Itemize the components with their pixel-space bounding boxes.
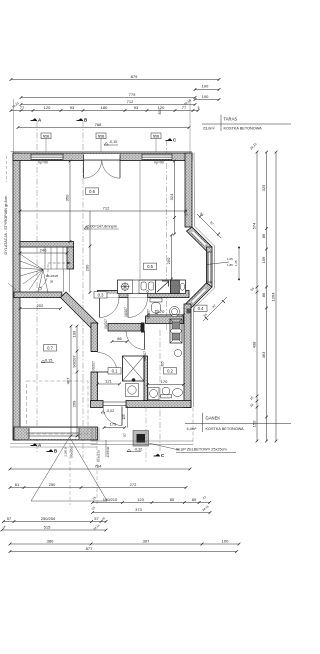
bay outer offset outline (194, 153, 215, 408)
garage apron lines (10, 443, 97, 445)
svg-text:90/207: 90/207 (147, 309, 151, 319)
dim 467 garage (70, 325, 73, 438)
svg-text:0.3: 0.3 (98, 293, 104, 298)
dim 768 (17, 126, 191, 129)
slup underline (176, 451, 236, 453)
stairs treads (20, 247, 70, 293)
partition right of shaft (144, 356, 148, 401)
svg-text:B: B (54, 449, 57, 454)
level mark -0,02 (101, 411, 105, 413)
steps mini dim (105, 440, 107, 457)
dim 350 interior (69, 160, 72, 243)
window north-east hp=90 (142, 154, 172, 159)
section flag C (166, 138, 178, 143)
svg-text:175: 175 (110, 421, 117, 426)
room label 0.2 bathroom (164, 368, 177, 374)
svg-text:380: 380 (47, 538, 54, 543)
svg-text:200: 200 (84, 264, 89, 271)
section line C (166, 140, 168, 330)
section flag C (154, 453, 166, 458)
svg-text:hp=90: hp=90 (154, 161, 164, 165)
room label 0.7 garage (44, 345, 57, 351)
north exterior wall (13, 153, 192, 161)
dim 712 interior (19, 210, 187, 213)
svg-text:5: 5 (198, 106, 200, 110)
svg-text:86: 86 (261, 233, 266, 238)
svg-text:86: 86 (117, 336, 122, 341)
svg-text:373: 373 (135, 507, 142, 512)
svg-text:4,4m²: 4,4m² (187, 427, 197, 431)
garage dashed car outline (27, 381, 89, 434)
level mark garage (41, 360, 54, 362)
bath toilet (161, 388, 172, 398)
dim 86 (111, 340, 129, 343)
svg-text:97: 97 (123, 433, 127, 437)
svg-text:574: 574 (185, 210, 189, 216)
wall end cap (141, 323, 145, 333)
dim chain bottom 2 (2, 520, 107, 523)
steps lines (91, 428, 93, 441)
bay window lower diagonal glazing (192, 288, 207, 303)
svg-text:93: 93 (134, 105, 139, 110)
svg-text:69: 69 (192, 497, 197, 502)
east exterior wall upper (185, 153, 192, 227)
porch column (133, 431, 149, 447)
svg-text:574: 574 (251, 222, 256, 229)
svg-text:1,35: 1,35 (234, 260, 238, 266)
WC toilet (150, 298, 162, 313)
svg-text:-0,15: -0,15 (109, 140, 118, 144)
svg-text:N5B: N5B (98, 134, 105, 138)
dim 175 porch (103, 426, 127, 429)
svg-text:N5B: N5B (43, 134, 50, 138)
duct shaft with X (hall/bath) (123, 356, 145, 382)
svg-text:0.5: 0.5 (147, 264, 153, 269)
bay window upper diagonal glazing (192, 231, 207, 246)
section flag A (31, 118, 43, 123)
hall west wall lower (91, 372, 98, 401)
door slot kitchen-hall (100, 294, 120, 298)
svg-text:-0,02: -0,02 (106, 409, 114, 413)
dim 240 stairwell (19, 252, 69, 255)
bay wall lower diagonal (186, 283, 212, 308)
svg-text:123: 123 (137, 497, 144, 502)
svg-text:90/207: 90/207 (124, 307, 128, 317)
bay window leader (207, 262, 229, 265)
svg-text:250: 250 (166, 257, 171, 264)
svg-text:GANEK: GANEK (206, 416, 221, 421)
dim 779 (20, 96, 197, 99)
svg-text:KOSTKA BETONOWA: KOSTKA BETONOWA (224, 127, 263, 131)
terrace door leaf left arc (84, 160, 102, 178)
stair hall north wall (20, 242, 74, 248)
svg-text:2x15/30: 2x15/30 (106, 446, 110, 457)
dim 100 terrace a (194, 88, 221, 91)
svg-text:61: 61 (15, 482, 20, 487)
dim 764 bottom (9, 468, 192, 471)
stairs walk line (40, 263, 69, 288)
entrance door arc (103, 407, 122, 426)
level mark -0,32 (127, 449, 141, 451)
svg-text:90/207: 90/207 (143, 351, 147, 361)
washing machine 2 (148, 388, 159, 400)
svg-text:90/207: 90/207 (104, 319, 108, 329)
room label 0.5 kitchen (144, 263, 157, 269)
dim chain bottom 1 (9, 486, 188, 489)
svg-text:305: 305 (161, 361, 165, 367)
svg-text:57: 57 (94, 516, 99, 521)
svg-text:156: 156 (261, 256, 266, 263)
entrance threshold (103, 401, 126, 403)
garage south wall (14, 427, 98, 440)
bay diag dim upper (197, 214, 221, 238)
dim 202 garage top (19, 307, 62, 310)
lintel tag N5B (151, 133, 161, 152)
property dash left (6, 156, 8, 182)
fridge (156, 280, 171, 294)
svg-text:93: 93 (70, 105, 75, 110)
dim chain garage east (76, 325, 79, 438)
svg-text:77: 77 (20, 105, 25, 110)
terrace door leaf right arc (102, 160, 120, 178)
bay window east (207, 252, 212, 282)
bay wall upper diagonal (187, 227, 213, 251)
svg-text:-0,15: -0,15 (44, 359, 53, 363)
dim 200 interior (89, 211, 92, 294)
svg-text:121: 121 (105, 378, 112, 383)
bay vertical mini dim (238, 248, 240, 280)
garage diagonal wall (61, 292, 99, 328)
terrace slab outline (11, 150, 193, 152)
svg-text:121: 121 (155, 309, 159, 315)
room label 0.3 (94, 292, 107, 298)
svg-text:SŁUP ŻELBETOWY 25x25cm: SŁUP ŻELBETOWY 25x25cm (176, 447, 227, 452)
svg-text:hp=90: hp=90 (38, 161, 48, 165)
dim 324 interior (173, 160, 176, 236)
svg-text:57: 57 (7, 516, 12, 521)
TARAS label block (202, 115, 291, 132)
window north-west hp=90 (31, 154, 63, 159)
svg-text:0.1: 0.1 (112, 369, 118, 374)
door slot second (128, 294, 148, 298)
svg-text:300: 300 (158, 109, 162, 115)
svg-text:324: 324 (169, 193, 174, 200)
svg-text:90/207: 90/207 (71, 355, 76, 368)
svg-text:350: 350 (64, 194, 69, 201)
svg-text:0.7: 0.7 (47, 346, 53, 351)
room divider living/kitchen (139, 161, 141, 280)
section flag B (77, 118, 88, 123)
svg-text:325: 325 (261, 184, 266, 191)
wall stairs/garage (14, 292, 62, 298)
mini vdim porch (127, 406, 129, 428)
door bathroom arc (126, 331, 145, 350)
svg-text:712: 712 (103, 205, 110, 210)
WC south wall (146, 316, 184, 324)
svg-text:272: 272 (130, 482, 137, 487)
dim chain porch (91, 501, 211, 504)
terrace level mark -0,15 (104, 142, 118, 145)
kitchen south wall (98, 291, 190, 298)
svg-text:170: 170 (158, 309, 165, 314)
dim 121 hall (96, 383, 121, 386)
duct shaft with X (east) (170, 319, 182, 343)
dashed axis below entrance (96, 440, 98, 505)
svg-text:(0,9x2,0): (0,9x2,0) (97, 450, 101, 462)
section line B (82, 121, 84, 458)
svg-text:86: 86 (261, 292, 266, 297)
vent grate in east wall (187, 309, 191, 314)
dim 250 kitchen (170, 234, 173, 281)
west exterior wall (13, 153, 20, 440)
svg-text:28: 28 (50, 280, 54, 284)
svg-text:23,0m²: 23,0m² (203, 127, 216, 131)
room label 0.4 wc (194, 305, 207, 311)
svg-text:1,86: 1,86 (227, 263, 233, 267)
east exterior wall lower (184, 304, 191, 408)
terrace double door opening (84, 154, 121, 161)
hall west wall upper (91, 323, 98, 352)
porch dashed roof outline (192, 408, 194, 445)
bay wall east (207, 247, 213, 287)
svg-text:779: 779 (129, 92, 136, 97)
svg-text:120: 120 (158, 105, 165, 110)
svg-text:TARAS: TARAS (224, 117, 238, 122)
right dim chain 1 (256, 151, 259, 443)
svg-text:515: 515 (44, 524, 51, 529)
svg-text:269: 269 (71, 400, 76, 407)
section flag B (47, 449, 58, 454)
svg-text:B: B (84, 118, 87, 123)
stove hob symbol (118, 280, 133, 294)
svg-text:0.6: 0.6 (89, 189, 95, 194)
washing machine 1 (126, 384, 139, 397)
kitchen basin unit (179, 280, 185, 294)
door hall arc b (128, 298, 148, 318)
dim 170 wc (147, 313, 185, 316)
kitchen sink (139, 280, 156, 294)
corridor south wall (108, 324, 141, 332)
svg-text:712: 712 (127, 99, 134, 104)
section line A (36, 121, 38, 452)
room label 0.1 hall (108, 368, 121, 374)
svg-text:1264: 1264 (270, 292, 275, 302)
bay diag dim lower (203, 297, 227, 321)
slup leader (149, 443, 180, 450)
svg-text:879: 879 (131, 74, 138, 79)
svg-text:170: 170 (161, 379, 168, 384)
dim 170 bathroom (146, 383, 185, 386)
svg-text:KOSTKA BETONOWA: KOSTKA BETONOWA (206, 427, 245, 431)
svg-text:N5B: N5B (153, 134, 160, 138)
svg-text:100/210: 100/210 (103, 497, 118, 502)
dim 373 (91, 511, 211, 514)
svg-text:100: 100 (222, 538, 229, 543)
dim 712 top (20, 103, 197, 106)
svg-text:109: 109 (71, 330, 76, 337)
porch steps dashes (91, 440, 194, 442)
gate symbol (69, 437, 71, 505)
dim 877 overall bottom (9, 550, 238, 553)
dim 879 overall top (10, 78, 221, 81)
svg-text:397: 397 (143, 538, 150, 543)
svg-text:(90x200): (90x200) (70, 446, 74, 458)
svg-text:0.2: 0.2 (167, 369, 173, 374)
stairwell east wall (67, 247, 74, 269)
svg-text:467: 467 (65, 377, 70, 384)
garage door jamb lines (91, 351, 98, 353)
svg-text:2,0/0,9: 2,0/0,9 (64, 447, 68, 457)
garage door opening (29, 428, 79, 439)
right dim chain 2 (265, 151, 268, 443)
south wall bathroom (126, 401, 191, 408)
door garage-hall arc (98, 353, 118, 373)
boiler circle (174, 349, 181, 356)
svg-text:-0,32: -0,32 (134, 448, 142, 452)
svg-text:250: 250 (49, 482, 56, 487)
underline level text (84, 228, 119, 230)
svg-text:764: 764 (95, 463, 102, 468)
svg-text:877: 877 (86, 546, 93, 551)
dim chain bottom 3 (9, 543, 241, 546)
dim 100 terrace b (194, 98, 221, 101)
svg-text:250/250: 250/250 (41, 516, 56, 521)
svg-text:100: 100 (202, 84, 209, 89)
terrace door leaves (83, 160, 85, 178)
svg-text:100: 100 (202, 94, 209, 99)
svg-text:125: 125 (122, 414, 126, 420)
right dim overall 1264 (275, 151, 278, 443)
dim chain top (10, 109, 200, 112)
svg-text:120: 120 (44, 105, 51, 110)
svg-text:202: 202 (37, 303, 44, 308)
svg-text:768: 768 (95, 122, 102, 127)
WC washbasin (170, 307, 180, 317)
kitchen counter outline (118, 280, 186, 294)
svg-text:90/207: 90/207 (92, 361, 96, 371)
south wall hall corner (91, 401, 104, 408)
svg-text:0.4: 0.4 (198, 306, 204, 311)
svg-text:180: 180 (101, 105, 108, 110)
driveway triangle (31, 437, 107, 501)
svg-text:438: 438 (251, 341, 256, 348)
svg-text:240: 240 (40, 247, 47, 252)
GANEK label block (185, 413, 291, 432)
bath washbasin (173, 389, 183, 397)
svg-text:16x18/25: 16x18/25 (46, 274, 59, 278)
section flag A (31, 443, 43, 448)
door kitchen-hall arc a (100, 298, 120, 318)
kitchen duct shaft dark (171, 280, 180, 294)
svg-text:DYLATACJA - STYROPIAN gr.4cm: DYLATACJA - STYROPIAN gr.4cm (4, 196, 8, 255)
lintel tag N5B (41, 133, 51, 152)
dim 515 (1, 529, 108, 532)
extension line left corner (12, 99, 14, 153)
svg-text:463: 463 (261, 351, 266, 358)
svg-text:80: 80 (170, 497, 175, 502)
svg-text:1,05: 1,05 (227, 257, 233, 261)
room label 0.6 living room (86, 188, 99, 194)
lintel tag N5B (96, 133, 106, 152)
leader for dylatacja (8, 283, 16, 290)
